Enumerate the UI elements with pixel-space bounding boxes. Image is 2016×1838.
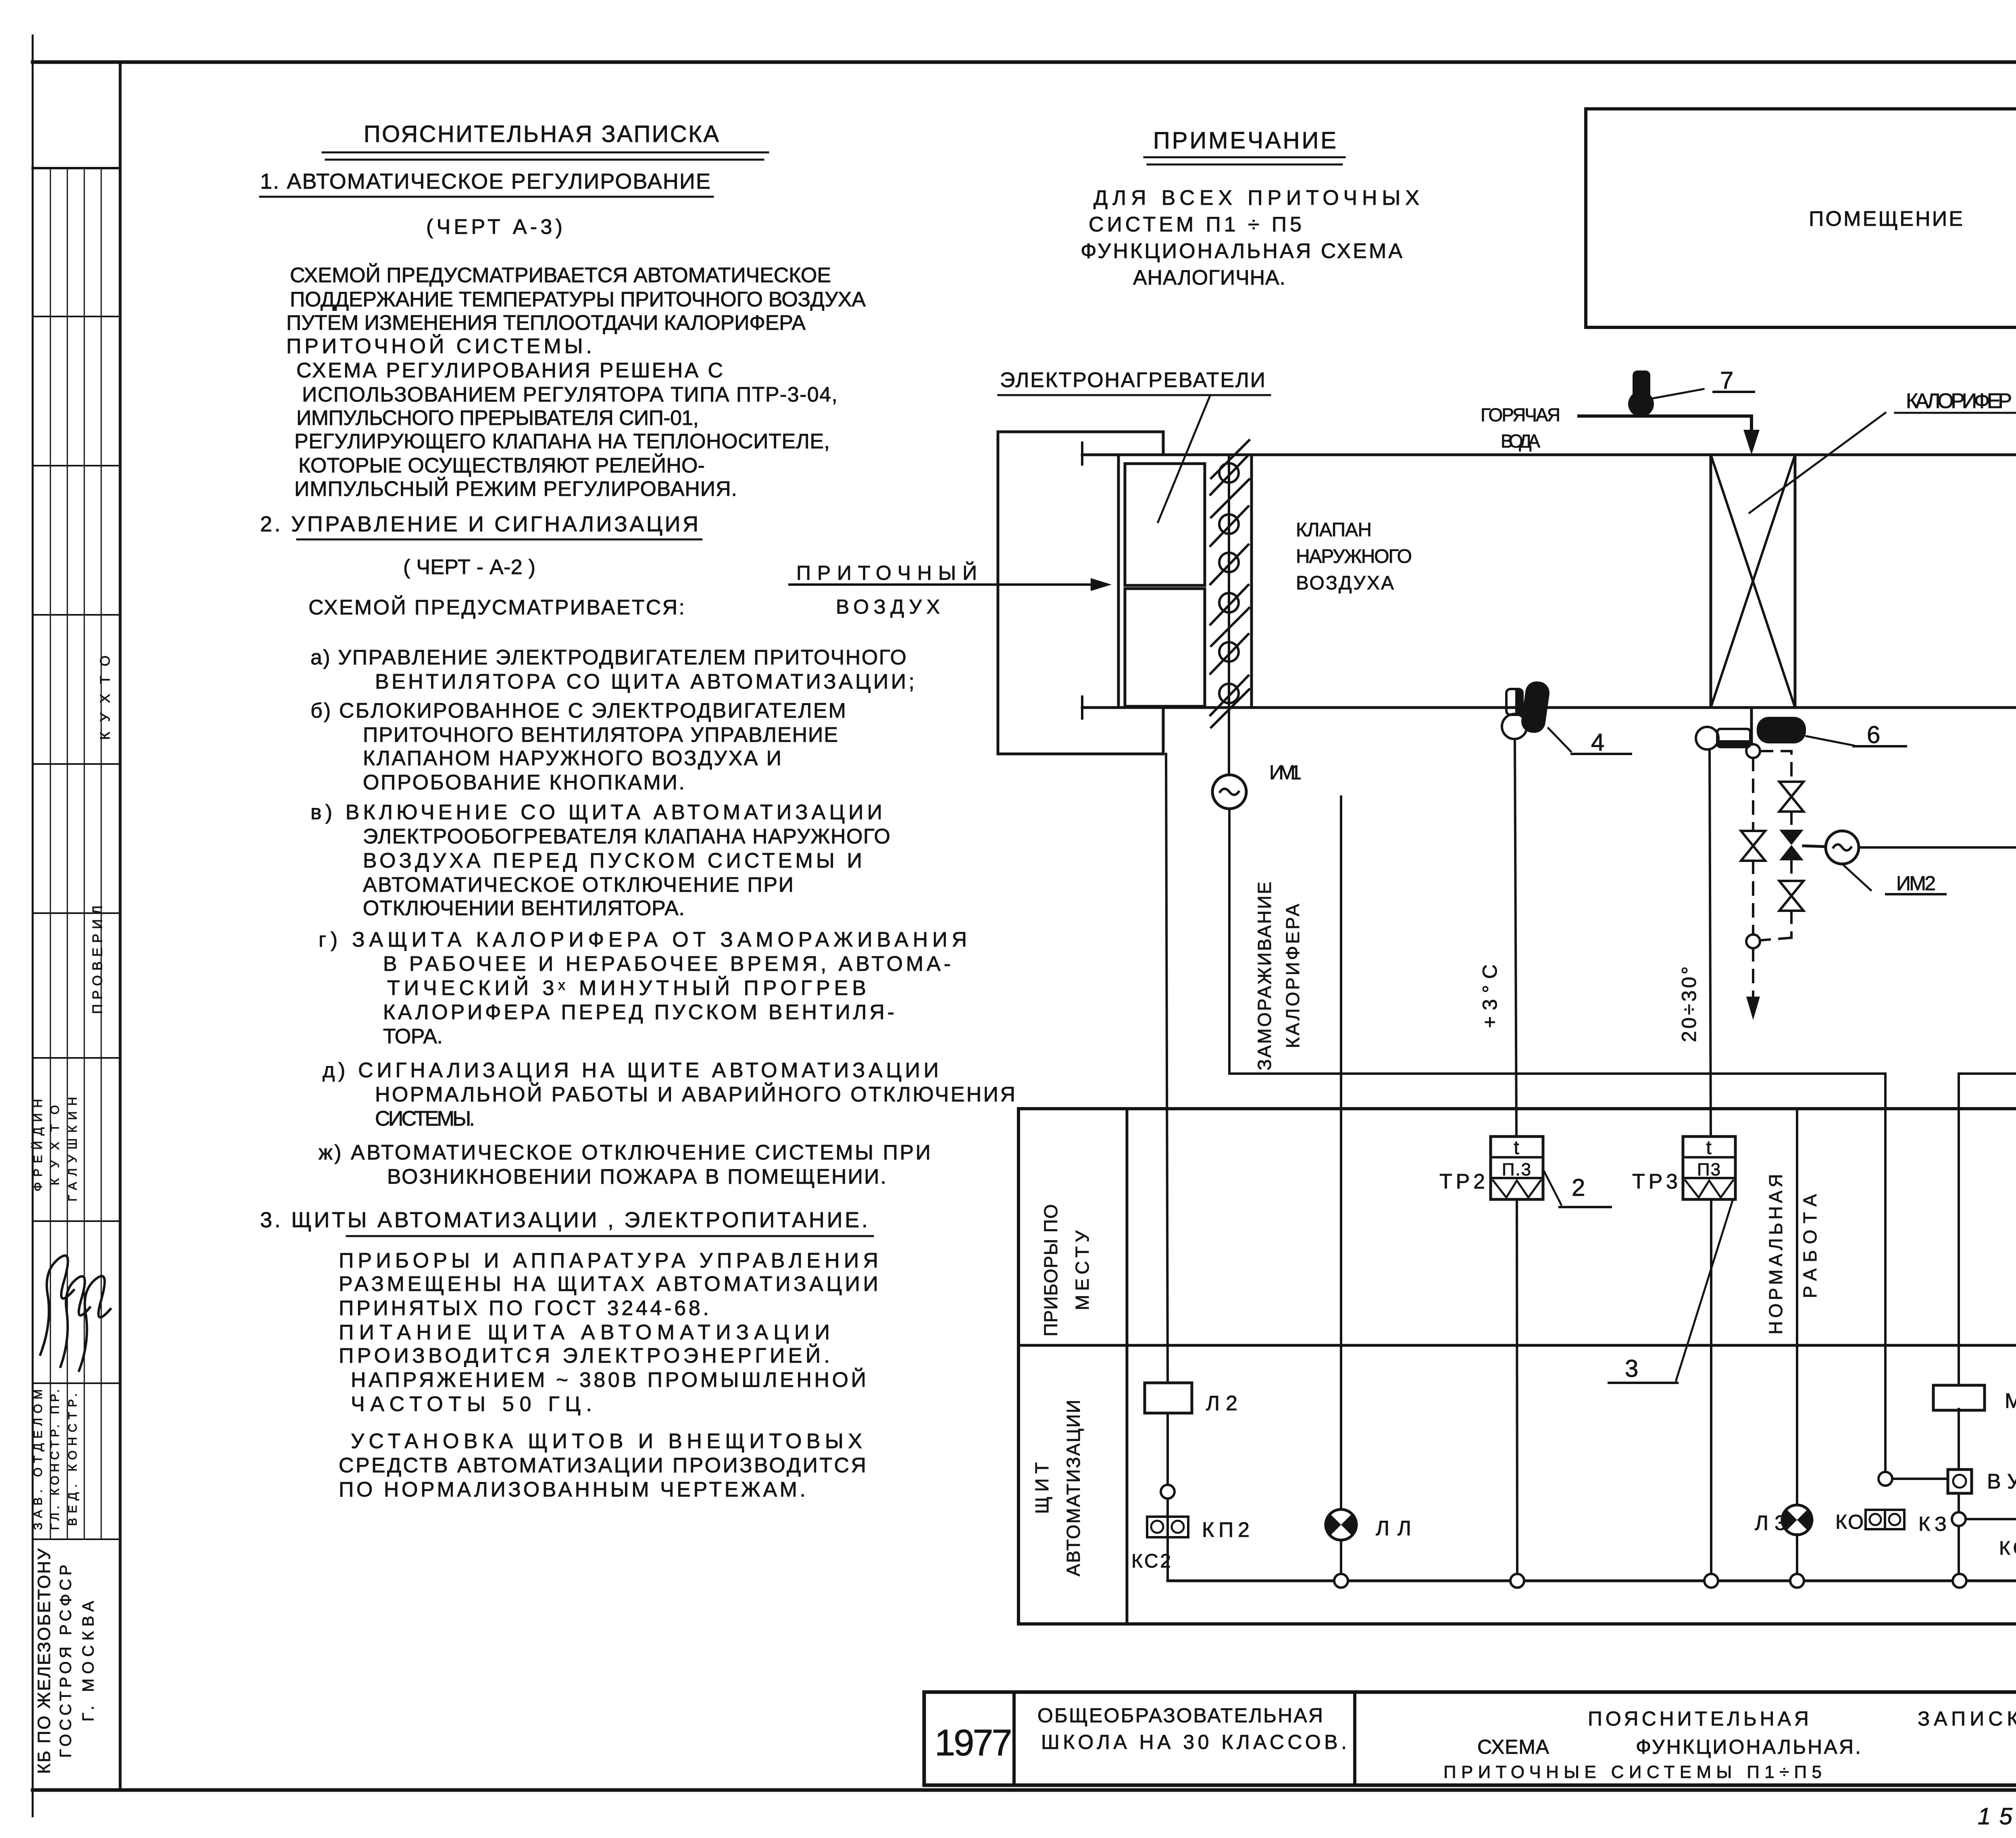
svg-text:ПРИТОЧНЫЕ СИСТЕМЫ П1÷П5: ПРИТОЧНЫЕ СИСТЕМЫ П1÷П5 [1443, 1762, 1822, 1782]
svg-text:ПРИТОЧНОГО ВЕНТИЛЯТОРА УПРАВ: ПРИТОЧНОГО ВЕНТИЛЯТОРА УПРАВЛЕНИЕ [363, 723, 839, 747]
sensor 6 (heat carrier thermometer) [1696, 717, 1906, 749]
starter M1 box [1933, 1385, 2016, 1413]
section 1 heading [260, 169, 713, 239]
svg-text:КЗ: КЗ [1918, 1513, 1947, 1535]
room (Pomeshchenie) box [1586, 109, 2016, 327]
svg-text:( ЧЕРТ - А-2 ): ( ЧЕРТ - А-2 ) [403, 556, 536, 579]
explanatory note heading [323, 121, 768, 160]
svg-text:+3°С: +3°С [1479, 964, 1501, 1028]
buttons KS1 / label KP1 [1999, 1509, 2016, 1559]
svg-text:КОТОРЫЕ ОСУЩЕСТВЛЯЮТ РЕЛЕЙНО: КОТОРЫЕ ОСУЩЕСТВЛЯЮТ РЕЛЕЙНО- [298, 454, 706, 477]
svg-text:ГОРЯЧАЯ: ГОРЯЧАЯ [1481, 404, 1561, 425]
electric heaters label [998, 368, 1270, 522]
svg-text:ПРИБОРЫ И АППАРАТУРА УПРАВЛ: ПРИБОРЫ И АППАРАТУРА УПРАВЛЕНИЯ [339, 1249, 879, 1272]
label column divider [1126, 1109, 1129, 1624]
svg-text:ПОМЕЩЕНИЕ: ПОМЕЩЕНИЕ [1809, 207, 1966, 231]
svg-text:ПРИТОЧНОЙ СИСТЕМЫ.: ПРИТОЧНОЙ СИСТЕМЫ. [286, 334, 593, 358]
wire TP3 to bus [1710, 1199, 1712, 1581]
svg-text:ОТКЛЮЧЕНИИ ВЕНТИЛЯТОРА.: ОТКЛЮЧЕНИИ ВЕНТИЛЯТОРА. [363, 897, 685, 920]
svg-text:ПРИТОЧНЫЙ: ПРИТОЧНЫЙ [796, 561, 978, 584]
svg-text:ОБЩЕОБРАЗОВАТЕЛЬНАЯ: ОБЩЕОБРАЗОВАТЕЛЬНАЯ [1037, 1704, 1324, 1727]
svg-text:КС2: КС2 [1131, 1551, 1172, 1572]
svg-text:КЛАПАНОМ НАРУЖНОГО ВОЗДУХА: КЛАПАНОМ НАРУЖНОГО ВОЗДУХА И [363, 747, 782, 770]
left stamp sidebar [33, 62, 120, 1790]
svg-text:ТОРА.: ТОРА. [383, 1025, 444, 1048]
svg-text:ГЛ. КОНСТР. ПР.: ГЛ. КОНСТР. ПР. [48, 1389, 62, 1530]
svg-text:ОПРОБОВАНИЕ КНОПКАМИ.: ОПРОБОВАНИЕ КНОПКАМИ. [363, 771, 685, 794]
svg-text:ПУТЕМ ИЗМЕНЕНИЯ ТЕПЛООТДАЧИ: ПУТЕМ ИЗМЕНЕНИЯ ТЕПЛООТДАЧИ КАЛОРИФЕРА [286, 311, 806, 335]
svg-text:ИМПУЛЬСНОГО ПРЕРЫВАТЕЛЯ СИП-: ИМПУЛЬСНОГО ПРЕРЫВАТЕЛЯ СИП-01, [296, 406, 700, 430]
svg-text:ДЛЯ ВСЕХ ПРИТОЧНЫХ: ДЛЯ ВСЕХ ПРИТОЧНЫХ [1093, 186, 1420, 210]
actuator IM1 [1212, 761, 1302, 809]
svg-text:СХЕМА: СХЕМА [1477, 1736, 1550, 1758]
section 3 heading [260, 1208, 873, 1236]
svg-text:ИМПУЛЬСНЫЙ РЕЖИМ РЕГУЛИРОВАН: ИМПУЛЬСНЫЙ РЕЖИМ РЕГУЛИРОВАНИЯ. [294, 477, 738, 501]
svg-text:Г. МОСКВА: Г. МОСКВА [79, 1601, 97, 1721]
svg-text:4: 4 [1591, 729, 1605, 756]
control valve branch with valves [1760, 751, 1804, 940]
svg-text:ЭЛЕКТРООБОГРЕВАТЕЛЯ КЛАПАНА: ЭЛЕКТРООБОГРЕВАТЕЛЯ КЛАПАНА НАРУЖНОГО [363, 825, 891, 848]
title block [924, 1692, 2016, 1785]
svg-text:а) УПРАВЛЕНИЕ ЭЛЕКТРОДВИГАТЕ: а) УПРАВЛЕНИЕ ЭЛЕКТРОДВИГАТЕЛЕМ ПРИТОЧНО… [310, 646, 907, 669]
svg-text:СИСТЕМЫ.: СИСТЕМЫ. [375, 1107, 476, 1130]
svg-text:П.3: П.3 [1502, 1160, 1532, 1180]
wire IM2 to IU [1859, 847, 2016, 1465]
svg-text:2: 2 [1572, 1174, 1586, 1201]
svg-text:ТР3: ТР3 [1632, 1170, 1679, 1193]
svg-text:ПО НОРМАЛИЗОВАННЫМ ЧЕРТЕЖАМ.: ПО НОРМАЛИЗОВАННЫМ ЧЕРТЕЖАМ. [339, 1478, 806, 1501]
thermo regulator TP3 [1609, 1137, 1735, 1383]
svg-text:ИМ1: ИМ1 [1269, 761, 1302, 784]
svg-text:ВОЗДУХА ПЕРЕД ПУСКОМ СИСТЕМ: ВОЗДУХА ПЕРЕД ПУСКОМ СИСТЕМЫ И [363, 849, 863, 872]
svg-text:КС1: КС1 [1999, 1538, 2016, 1559]
svg-text:СХЕМА РЕГУЛИРОВАНИЯ РЕШЕНА: СХЕМА РЕГУЛИРОВАНИЯ РЕШЕНА С [296, 359, 724, 382]
svg-text:ШКОЛА НА 30 КЛАССОВ.: ШКОЛА НА 30 КЛАССОВ. [1041, 1731, 1347, 1753]
svg-text:КЛАПАН: КЛАПАН [1296, 519, 1372, 541]
svg-text:ПИТАНИЕ ЩИТА АВТОМАТИЗАЦИИ: ПИТАНИЕ ЩИТА АВТОМАТИЗАЦИИ [339, 1321, 831, 1344]
section 3 body text [339, 1249, 879, 1501]
supply air intake outer casing [998, 432, 1163, 754]
svg-text:2. УПРАВЛЕНИЕ И СИГНАЛИЗА: 2. УПРАВЛЕНИЕ И СИГНАЛИЗАЦИЯ [260, 512, 700, 536]
row label automation panel [1031, 1399, 1084, 1576]
section 1 body text [286, 263, 866, 501]
wire LL to bus [1340, 1540, 1342, 1581]
svg-text:АНАЛОГИЧНА.: АНАЛОГИЧНА. [1133, 266, 1286, 289]
kalorifer label [1749, 389, 2016, 513]
bypass valve line (dashed) with shutoff valve [1741, 758, 1765, 1020]
svg-text:ЛЛ: ЛЛ [1376, 1517, 1412, 1540]
heater (kalorifer) with X cross [1711, 455, 1795, 708]
wire from damper casing to panel (KS2 line) [1166, 754, 1168, 1383]
svg-text:АВТОМАТИЧЕСКОЕ ОТКЛЮЧЕНИЕ ПР: АВТОМАТИЧЕСКОЕ ОТКЛЮЧЕНИЕ ПРИ [363, 873, 794, 897]
svg-text:КАЛОРИФЕР: КАЛОРИФЕР [1906, 389, 2013, 413]
svg-text:ВЕНТИЛЯТОРА СО ЩИТА АВТОМАТ: ВЕНТИЛЯТОРА СО ЩИТА АВТОМАТИЗАЦИИ; [375, 670, 915, 693]
svg-text:МЕСТУ: МЕСТУ [1072, 1230, 1093, 1310]
svg-text:КО: КО [1835, 1511, 1864, 1533]
handwritten archive number [1978, 1803, 2016, 1832]
wire fan motor M to M1 [1959, 628, 2016, 1385]
vertical text freezing of kalorifer [1254, 881, 1303, 1070]
row divider [1018, 1344, 2016, 1347]
svg-text:ПОДДЕРЖАНИЕ ТЕМПЕРАТУРЫ ПРИТ: ПОДДЕРЖАНИЕ ТЕМПЕРАТУРЫ ПРИТОЧНОГО ВОЗДУ… [290, 288, 866, 311]
svg-text:(ЧЕРТ А-3): (ЧЕРТ А-3) [426, 215, 563, 239]
svg-text:ГОССТРОЯ РСФСР: ГОССТРОЯ РСФСР [57, 1564, 75, 1758]
louver strip with blades [1210, 440, 1252, 775]
svg-text:НАРУЖНОГО: НАРУЖНОГО [1296, 546, 1413, 567]
main duct walls [1082, 443, 2016, 718]
svg-text:ИСПОЛЬЗОВАНИЕМ РЕГУЛЯТОРА ТИ: ИСПОЛЬЗОВАНИЕМ РЕГУЛЯТОРА ТИПА ПТР-3-04, [302, 383, 838, 406]
section 2 body text [308, 595, 1016, 1189]
buttons KO [1835, 1510, 1904, 1533]
relay L2 box [1145, 1383, 1238, 1415]
junction KZ [1918, 1512, 2016, 1581]
automation panel outer box [1018, 1109, 2016, 1624]
svg-text:г) ЗАЩИТА КАЛОРИФЕРА ОТ ЗА: г) ЗАЩИТА КАЛОРИФЕРА ОТ ЗАМОРАЖИВАНИЯ [319, 928, 968, 951]
button pair KP2 [1131, 1517, 1250, 1581]
wire TP2 to bus [1517, 1199, 1517, 1581]
svg-text:7: 7 [1720, 367, 1734, 394]
svg-text:ж) АВТОМАТИЧЕСКОЕ ОТКЛЮЧЕНИЕ: ж) АВТОМАТИЧЕСКОЕ ОТКЛЮЧЕНИЕ СИСТЕМЫ ПРИ [319, 1141, 931, 1164]
svg-text:Л2: Л2 [1206, 1392, 1238, 1415]
vertical text normal operation [1765, 1173, 1820, 1334]
hot water pipe with arrow [1481, 404, 1760, 455]
svg-text:ПРИНЯТЫХ ПО ГОСТ 3244-68.: ПРИНЯТЫХ ПО ГОСТ 3244-68. [339, 1297, 710, 1320]
svg-text:М1: М1 [2005, 1389, 2016, 1413]
svg-text:НОРМАЛЬНОЙ РАБОТЫ И АВАРИЙНО: НОРМАЛЬНОЙ РАБОТЫ И АВАРИЙНОГО ОТКЛЮЧЕНИ… [375, 1082, 1016, 1106]
svg-text:НАПРЯЖЕНИЕМ ~ 380В ПРОМЫШЛЕН: НАПРЯЖЕНИЕМ ~ 380В ПРОМЫШЛЕННОЙ [351, 1368, 867, 1392]
svg-text:ЧАСТОТЫ 50 ГЦ.: ЧАСТОТЫ 50 ГЦ. [351, 1393, 593, 1416]
svg-text:3: 3 [1625, 1355, 1639, 1382]
actuator IM2 [1804, 831, 1945, 895]
svg-text:б) СБЛОКИРОВАННОЕ С ЭЛЕКТРО: б) СБЛОКИРОВАННОЕ С ЭЛЕКТРОДВИГАТЕЛЕМ [310, 699, 847, 722]
svg-text:ФУНКЦИОНАЛЬНАЯ СХЕМА: ФУНКЦИОНАЛЬНАЯ СХЕМА [1081, 239, 1403, 263]
svg-text:ПРОВЕРИЛ: ПРОВЕРИЛ [90, 905, 105, 1014]
VU link junction [1879, 1472, 1948, 1486]
note (primechanie) [1081, 127, 1420, 289]
sheet name [1443, 1707, 2016, 1782]
sidebar org name (KB po zhelezobetonu) [34, 1548, 97, 1774]
svg-text:КАЛОРИФЕРА: КАЛОРИФЕРА [1282, 903, 1303, 1048]
svg-text:ЗАМОРАЖИВАНИЕ: ЗАМОРАЖИВАНИЕ [1254, 881, 1275, 1070]
svg-text:ТР2: ТР2 [1439, 1170, 1486, 1193]
wire LL lamp line [1340, 797, 1342, 1509]
svg-text:ВОДА: ВОДА [1501, 431, 1541, 452]
svg-text:ЭЛЕКТРОНАГРЕВАТЕЛИ: ЭЛЕКТРОНАГРЕВАТЕЛИ [1000, 368, 1266, 392]
svg-text:СХЕМОЙ ПРЕДУСМАТРИВАЕТСЯ АВТ: СХЕМОЙ ПРЕДУСМАТРИВАЕТСЯ АВТОМАТИЧЕСКОЕ [290, 263, 832, 287]
junction KS2 [1161, 1413, 1175, 1516]
svg-text:ВУ: ВУ [1987, 1470, 2016, 1493]
svg-text:ВОЗДУХ: ВОЗДУХ [836, 595, 941, 618]
svg-text:ВОЗДУХА: ВОЗДУХА [1296, 572, 1395, 594]
outside air damper assembly (two panes) [1118, 455, 1205, 708]
svg-text:15954-ОЕ: 15954-ОЕ [1978, 1803, 2016, 1830]
svg-text:ПРОИЗВОДИТСЯ ЭЛЕКТРОЭНЕРГИЕЙ.: ПРОИЗВОДИТСЯ ЭЛЕКТРОЭНЕРГИЕЙ. [339, 1344, 831, 1368]
svg-text:КАЛОРИФЕРА ПЕРЕД ПУСКОМ ВЕН: КАЛОРИФЕРА ПЕРЕД ПУСКОМ ВЕНТИЛЯ- [383, 1001, 895, 1024]
svg-text:РАЗМЕЩЕНЫ НА ЩИТАХ АВТОМАТИ: РАЗМЕЩЕНЫ НА ЩИТАХ АВТОМАТИЗАЦИИ [339, 1272, 879, 1296]
svg-text:СХЕМОЙ ПРЕДУСМАТРИВАЕТСЯ:: СХЕМОЙ ПРЕДУСМАТРИВАЕТСЯ: [308, 595, 685, 619]
svg-text:СИСТЕМ П1 ÷ П5: СИСТЕМ П1 ÷ П5 [1089, 213, 1302, 236]
svg-text:1. АВТОМАТИЧЕСКОЕ РЕГУЛИРОВ: 1. АВТОМАТИЧЕСКОЕ РЕГУЛИРОВАНИЕ [260, 169, 712, 194]
svg-text:ФУНКЦИОНАЛЬНАЯ.: ФУНКЦИОНАЛЬНАЯ. [1636, 1736, 1862, 1758]
svg-text:в) ВКЛЮЧЕНИЕ СО ЩИТА АВТОМ: в) ВКЛЮЧЕНИЕ СО ЩИТА АВТОМАТИЗАЦИИ [310, 801, 883, 824]
sensor 7 (hot water thermometer) [1628, 367, 1754, 417]
svg-text:3. ЩИТЫ АВТОМАТИЗАЦИИ ,: 3. ЩИТЫ АВТОМАТИЗАЦИИ , ЭЛЕКТРОПИТАНИЕ. [260, 1208, 869, 1232]
switch VU [1948, 1409, 2016, 1512]
svg-text:КУХТО: КУХТО [98, 655, 113, 740]
bottom bus [1168, 1580, 2016, 1582]
sidebar signatures [40, 1255, 110, 1371]
bus junction dots [1334, 1574, 2016, 1588]
svg-text:20÷30°: 20÷30° [1678, 966, 1700, 1042]
svg-text:ПОЯСНИТЕЛЬНАЯ ЗАПИСКА: ПОЯСНИТЕЛЬНАЯ ЗАПИСКА [364, 121, 721, 147]
svg-text:t: t [1514, 1137, 1520, 1159]
svg-text:Л3: Л3 [1755, 1511, 1787, 1535]
svg-text:ЗАПИСКА.: ЗАПИСКА. [1918, 1707, 2016, 1730]
svg-text:д) СИГНАЛИЗАЦИЯ НА ЩИТЕ АВ: д) СИГНАЛИЗАЦИЯ НА ЩИТЕ АВТОМАТИЗАЦИИ [323, 1059, 939, 1082]
svg-text:t: t [1706, 1137, 1712, 1159]
lamp LL [1326, 1509, 1412, 1540]
air valve label [1296, 519, 1413, 594]
svg-text:ВЕД. КОНСТР.: ВЕД. КОНСТР. [66, 1393, 79, 1526]
svg-text:ПОЯСНИТЕЛЬНАЯ: ПОЯСНИТЕЛЬНАЯ [1588, 1707, 1810, 1730]
svg-text:ПРИМЕЧАНИЕ: ПРИМЕЧАНИЕ [1153, 127, 1339, 154]
sidebar small rotated annotations [31, 655, 113, 1530]
wire L3 lamp line [1796, 1109, 1798, 1505]
sensor 4 (frost protection sensor) [1502, 680, 1631, 756]
svg-text:ПРИБОРЫ ПО: ПРИБОРЫ ПО [1040, 1203, 1061, 1336]
svg-text:ЩИТ: ЩИТ [1031, 1461, 1052, 1514]
svg-text:РАБОТА: РАБОТА [1799, 1193, 1820, 1298]
svg-text:УСТАНОВКА ЩИТОВ И ВНЕЩИТОВЫХ: УСТАНОВКА ЩИТОВ И ВНЕЩИТОВЫХ [351, 1430, 863, 1453]
svg-text:6: 6 [1867, 721, 1881, 748]
wire IM1 to VU junction [1229, 809, 1885, 1472]
svg-text:ГАЛУШКИН: ГАЛУШКИН [66, 1097, 79, 1201]
section 2 heading [260, 512, 702, 579]
svg-text:КП2: КП2 [1202, 1518, 1250, 1542]
row label instruments in place [1040, 1203, 1093, 1336]
svg-text:КБ ПО ЖЕЛЕЗОБЕТОНУ: КБ ПО ЖЕЛЕЗОБЕТОНУ [34, 1548, 54, 1774]
wire sensor4 to TP2 [1515, 739, 1516, 1137]
thermo regulator TP2 [1439, 1137, 1611, 1207]
supply air label and arrow [789, 561, 1112, 618]
heat carrier junction node (top) [1746, 708, 1760, 758]
svg-text:ИМ2: ИМ2 [1896, 872, 1937, 895]
svg-text:ТИЧЕСКИЙ 3ˣ МИНУТНЫЙ ПРОГРЕВ: ТИЧЕСКИЙ 3ˣ МИНУТНЫЙ ПРОГРЕВ [387, 976, 867, 1000]
lamp L3 [1755, 1505, 1812, 1535]
object name [1037, 1704, 1347, 1753]
svg-text:П3: П3 [1697, 1160, 1721, 1180]
svg-text:АВТОМАТИЗАЦИИ: АВТОМАТИЗАЦИИ [1063, 1399, 1084, 1576]
svg-text:В РАБОЧЕЕ И НЕРАБОЧЕЕ ВРЕМЯ: В РАБОЧЕЕ И НЕРАБОЧЕЕ ВРЕМЯ, АВТОМА- [383, 952, 952, 976]
wire sensor6 to TP3 [1710, 749, 1711, 1137]
svg-text:НОРМАЛЬНАЯ: НОРМАЛЬНАЯ [1765, 1173, 1786, 1334]
svg-text:1977: 1977 [935, 1722, 1011, 1763]
svg-text:СРЕДСТВ АВТОМАТИЗАЦИИ ПРОИЗВ: СРЕДСТВ АВТОМАТИЗАЦИИ ПРОИЗВОДИТСЯ [339, 1454, 867, 1477]
svg-text:РЕГУЛИРУЮЩЕГО КЛАПАНА НА ТЕ: РЕГУЛИРУЮЩЕГО КЛАПАНА НА ТЕПЛОНОСИТЕЛЕ, [294, 430, 831, 453]
svg-text:ВОЗНИКНОВЕНИИ ПОЖАРА В ПОМЕ: ВОЗНИКНОВЕНИИ ПОЖАРА В ПОМЕЩЕНИИ. [387, 1165, 887, 1189]
